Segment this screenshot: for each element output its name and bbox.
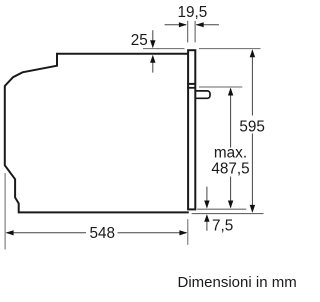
- svg-text:7,5: 7,5: [212, 217, 233, 234]
- svg-text:19,5: 19,5: [177, 4, 207, 21]
- svg-text:Dimensioni in mm: Dimensioni in mm: [178, 274, 297, 291]
- svg-text:487,5: 487,5: [211, 161, 249, 178]
- svg-text:max.: max.: [214, 144, 247, 161]
- svg-text:595: 595: [239, 118, 265, 135]
- svg-text:25: 25: [131, 32, 148, 49]
- svg-text:548: 548: [90, 225, 116, 242]
